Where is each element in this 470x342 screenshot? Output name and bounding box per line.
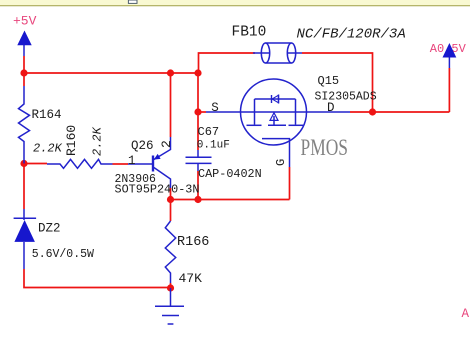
svg-text:R160: R160 bbox=[64, 125, 79, 156]
svg-text:D: D bbox=[327, 101, 335, 115]
svg-text:Q15: Q15 bbox=[318, 74, 340, 88]
svg-text:R166: R166 bbox=[177, 235, 209, 250]
svg-text:47K: 47K bbox=[179, 271, 203, 286]
svg-text:R164: R164 bbox=[32, 108, 62, 122]
svg-text:NC/FB/120R/3A: NC/FB/120R/3A bbox=[297, 27, 406, 43]
svg-text:S: S bbox=[211, 101, 219, 115]
svg-text:FB10: FB10 bbox=[232, 25, 267, 41]
svg-text:2: 2 bbox=[159, 140, 174, 148]
svg-text:Q26: Q26 bbox=[131, 139, 154, 153]
svg-text:0.1uF: 0.1uF bbox=[197, 140, 230, 152]
svg-text:SI2305ADS: SI2305ADS bbox=[315, 91, 377, 104]
svg-text:PMOS: PMOS bbox=[301, 135, 349, 160]
svg-text:SOT95P240-3N: SOT95P240-3N bbox=[115, 183, 200, 197]
svg-text:+5V: +5V bbox=[13, 14, 37, 29]
svg-text:G: G bbox=[274, 159, 288, 166]
svg-text:2.2K: 2.2K bbox=[91, 126, 105, 156]
svg-text:5.6V/0.5W: 5.6V/0.5W bbox=[32, 248, 94, 261]
svg-text:DZ2: DZ2 bbox=[38, 222, 61, 236]
svg-text:A: A bbox=[462, 307, 470, 321]
svg-text:1: 1 bbox=[128, 154, 136, 168]
svg-text:2.2K: 2.2K bbox=[33, 142, 63, 156]
svg-text:C67: C67 bbox=[198, 125, 220, 139]
svg-text:CAP-0402N: CAP-0402N bbox=[198, 167, 262, 181]
